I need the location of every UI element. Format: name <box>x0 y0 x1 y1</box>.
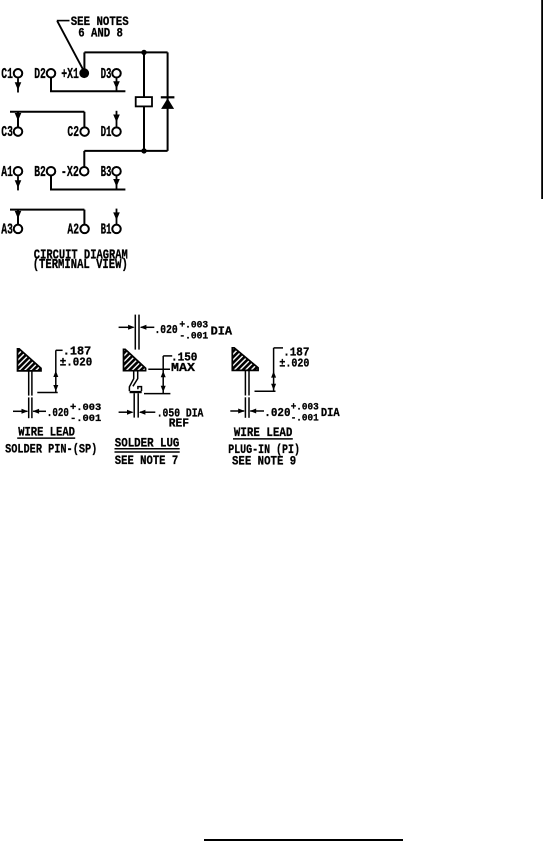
right margin rule <box>541 0 543 199</box>
arrowhead on A3 bracket <box>15 211 22 219</box>
svg-text:±.020: ±.020 <box>60 356 92 370</box>
caption CIRCUIT DIAGRAM <box>33 249 128 274</box>
wire top rail <box>84 51 167 53</box>
wire bottom rail <box>84 150 167 152</box>
dimension .050 DIA REF fig2 <box>119 406 204 430</box>
solder lug hook fig2 <box>129 371 141 394</box>
svg-text:MAX: MAX <box>171 361 196 375</box>
dimension .020 +.003 -.001 DIA fig2 <box>119 320 233 343</box>
svg-text:D3: D3 <box>101 67 112 83</box>
terminal D2 <box>34 67 55 83</box>
svg-text:C2: C2 <box>67 125 79 141</box>
svg-text:A3: A3 <box>1 223 13 239</box>
terminal D1 <box>101 125 121 141</box>
resistor (suppression element) <box>136 97 152 106</box>
caption WIRE LEAD fig3 <box>233 425 293 440</box>
svg-text:C3: C3 <box>1 125 13 141</box>
svg-text:.020: .020 <box>47 406 69 420</box>
wire drop to -X2 <box>83 151 85 167</box>
svg-text:+X1: +X1 <box>61 67 79 83</box>
svg-text:A2: A2 <box>67 223 79 239</box>
dimension .020 +.003 -.001 DIA fig3 <box>230 401 340 424</box>
wire D2 to line under row1 <box>51 78 125 92</box>
svg-text:DIA: DIA <box>321 406 340 420</box>
svg-text:-.001: -.001 <box>291 413 319 425</box>
svg-text:(TERMINAL VIEW): (TERMINAL VIEW) <box>33 258 128 273</box>
terminal C1 <box>1 67 22 83</box>
dimension .020 +.003 -.001 fig1 <box>13 402 101 425</box>
bottom rule <box>204 839 403 841</box>
terminal A3 <box>1 223 22 239</box>
wire lead fig3 (double line) <box>245 370 249 418</box>
svg-text:SEE NOTE 7: SEE NOTE 7 <box>115 453 178 468</box>
svg-text:+.003: +.003 <box>291 401 319 413</box>
svg-text:.020: .020 <box>264 406 290 420</box>
svg-text:D1: D1 <box>101 125 112 141</box>
relay body corner (hatched) fig1 <box>18 349 42 371</box>
svg-text:WIRE LEAD: WIRE LEAD <box>234 425 293 440</box>
arrow under A1 <box>15 176 22 190</box>
dimension .187 +-.020 fig3 <box>255 345 310 391</box>
svg-text:-X2: -X2 <box>61 165 79 181</box>
bracket wire A3 to A2 <box>10 210 84 225</box>
dimension .187 +-.020 fig1 <box>37 345 92 393</box>
svg-text:SOLDER PIN-(SP): SOLDER PIN-(SP) <box>5 442 97 457</box>
terminal +X1 (filled dot) <box>61 67 89 83</box>
svg-text:DIA: DIA <box>211 324 233 338</box>
terminal A2 <box>67 223 88 239</box>
wire riser from +X1 dot to top rail <box>83 52 85 69</box>
terminal C3 <box>1 125 22 141</box>
svg-text:C1: C1 <box>1 67 13 83</box>
svg-text:A1: A1 <box>1 165 13 181</box>
terminal A1 <box>1 165 22 181</box>
svg-text:B3: B3 <box>101 165 112 181</box>
svg-text:WIRE LEAD: WIRE LEAD <box>18 424 75 439</box>
arrow D3 to row1 line <box>113 78 120 91</box>
diode CR (cathode bar and triangle) <box>161 97 175 109</box>
terminal B1 <box>101 223 121 239</box>
note text SEE NOTES 6 AND 8 <box>71 14 129 40</box>
arrow B3 to row3 line <box>113 176 120 190</box>
relay body corner (hatched) fig2 <box>124 349 146 370</box>
terminal -X2 <box>61 165 89 181</box>
arrow under C1 <box>15 78 22 92</box>
wire diode branch vertical <box>167 52 169 150</box>
svg-text:B1: B1 <box>101 223 112 239</box>
junction dot top <box>141 50 146 55</box>
caption WIRE LEAD fig1 <box>17 424 75 439</box>
wire lead above body fig2 <box>135 315 139 350</box>
bracket wire C3 to C2 <box>10 112 84 127</box>
arrowhead on C3 bracket <box>15 113 22 121</box>
wire resistor branch vertical <box>143 52 145 150</box>
arrow above D1 <box>113 111 120 127</box>
svg-text:-.001: -.001 <box>179 330 208 342</box>
PART 1: circuit diagram (terminal view) <box>1 14 174 273</box>
svg-text:±.020: ±.020 <box>279 357 309 371</box>
junction dot bottom <box>141 148 146 153</box>
wire lead fig1 (double line) <box>29 370 32 418</box>
terminal D3 <box>101 67 121 83</box>
svg-text:.020: .020 <box>155 323 178 337</box>
extension lines below lug fig2 <box>134 393 138 417</box>
wire B2 to line under row3 <box>51 176 125 190</box>
svg-text:SEE NOTE 9: SEE NOTE 9 <box>232 454 296 469</box>
svg-text:D2: D2 <box>34 67 46 83</box>
svg-text:B2: B2 <box>34 165 46 181</box>
terminal B2 <box>34 165 55 181</box>
caption SOLDER LUG fig2 <box>115 436 180 452</box>
svg-text:REF: REF <box>169 417 189 431</box>
dimension .150 MAX fig2 <box>144 350 197 393</box>
terminal C2 <box>67 125 88 141</box>
note leader line to +X1 <box>57 21 83 70</box>
svg-text:-.001: -.001 <box>70 413 101 425</box>
relay body corner (hatched) fig3 <box>232 348 258 371</box>
svg-text:6 AND 8: 6 AND 8 <box>78 26 123 41</box>
arrow above B1 <box>113 209 120 224</box>
terminal B3 <box>101 165 121 181</box>
